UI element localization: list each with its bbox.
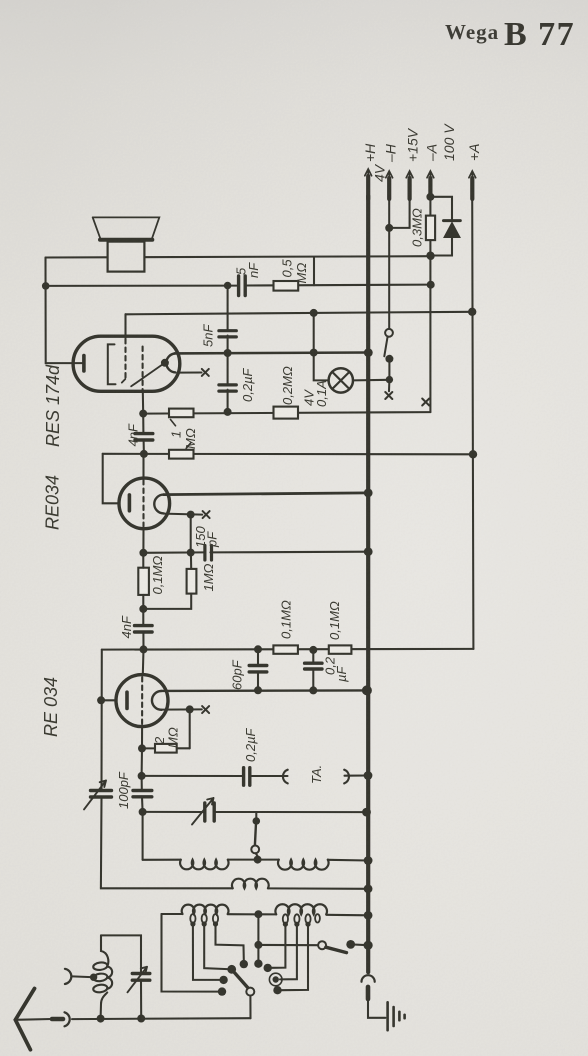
resistor 0,5MOhm xyxy=(274,281,299,291)
tube V2 RE034 envelope xyxy=(119,478,170,529)
switch S3 band left xyxy=(234,972,249,989)
tube V1 cathode xyxy=(82,356,86,371)
node W10 at 1M branch xyxy=(187,549,195,557)
antenna jack arc xyxy=(65,1012,70,1026)
terminal +A arrow xyxy=(470,178,474,199)
capacitor 0,2uF b xyxy=(305,663,322,669)
antenna coil loop frame xyxy=(101,935,142,1018)
node W22 at trimmer xyxy=(137,1015,145,1023)
node -A top xyxy=(426,193,434,201)
node coil at jack2 xyxy=(90,974,97,981)
wire W19 with coil xyxy=(101,887,368,889)
node contact A1 xyxy=(219,976,227,984)
antenna trimmer cap xyxy=(132,974,150,981)
terminal +H arrow xyxy=(366,176,370,199)
wire W6 xyxy=(143,412,430,414)
node W2 left xyxy=(42,282,50,290)
node W17 at bus xyxy=(362,808,371,817)
wire W1 top xyxy=(46,256,432,257)
tube V3 grid dashed xyxy=(141,677,143,724)
capacitor 0,2uF c xyxy=(244,768,250,786)
wire 60pF branch xyxy=(257,649,259,690)
wire tap B3 xyxy=(282,927,309,991)
terminal +15V arrow xyxy=(408,178,412,199)
tube V3 RE 034 envelope xyxy=(116,675,168,727)
wire 5nF grid cap line xyxy=(227,285,229,412)
wire diode branch xyxy=(430,197,452,256)
node 2M left xyxy=(138,744,146,752)
tube V2 cathode xyxy=(128,495,132,511)
wire 0,2uF branch xyxy=(312,650,314,691)
node W11 xyxy=(139,605,147,613)
node left contact d xyxy=(218,987,226,995)
wire +15V drop to -H xyxy=(389,196,409,228)
coil L1b xyxy=(278,860,329,870)
node cap line at W6 xyxy=(224,408,232,416)
coil L3a tapped xyxy=(182,905,229,914)
node contact B1 xyxy=(264,964,272,972)
tube V1 anode arc xyxy=(166,354,175,373)
wire W12 xyxy=(102,648,474,651)
bus bottom plug pin xyxy=(366,987,371,999)
wire 1M branch xyxy=(190,553,192,569)
trimmer arrow xyxy=(84,781,106,810)
tube V2 anode arc xyxy=(154,495,164,514)
ground symbol xyxy=(388,1002,405,1030)
node contact A3 xyxy=(240,960,248,968)
wire W11 U link xyxy=(143,553,191,609)
trimmer cap W17 xyxy=(205,803,214,821)
node W19 at bus xyxy=(364,884,373,893)
wire W5 to x mark xyxy=(179,371,202,373)
switch S1 mains xyxy=(385,329,393,337)
wire W13 anode V3 xyxy=(161,689,367,692)
capacitor 150pF xyxy=(205,546,212,561)
wire W7 cathode line xyxy=(103,453,473,456)
resistor 0,1MOhm a xyxy=(273,645,298,653)
wire W16 TA line xyxy=(142,774,368,777)
coil L1a xyxy=(180,860,228,870)
wire W10 xyxy=(143,552,368,553)
x mark V3 xyxy=(202,706,209,713)
coil L2 xyxy=(232,879,269,889)
tube V1 screen grid xyxy=(108,344,116,384)
antenna jack 2 lead xyxy=(72,975,91,978)
capacitor 5nF grid xyxy=(219,331,236,337)
switch S4 band right xyxy=(258,944,318,946)
node center at switch wire xyxy=(254,941,262,949)
tube V1 grid2 dashed xyxy=(142,347,144,392)
tube V1 RES174d envelope xyxy=(73,336,180,391)
node -H/+15V junction xyxy=(385,224,393,232)
wire W4 anode V1 xyxy=(175,351,369,354)
node contact B3 xyxy=(273,986,281,994)
tube V1 anode dot xyxy=(161,359,169,367)
resistor 0,2MOhm xyxy=(274,407,299,419)
wire -H line upper xyxy=(388,196,390,329)
node W13 at bus xyxy=(362,685,372,695)
wire grid drop to tube V1 xyxy=(124,314,126,338)
terminal -A arrow xyxy=(428,178,432,197)
node W8 at bus xyxy=(364,489,373,498)
wire tap B1 xyxy=(272,927,286,968)
x mark V2 xyxy=(203,511,210,518)
node contact B2 ringed xyxy=(273,976,279,982)
node W20 at bus xyxy=(364,911,373,920)
wire +H filament bus xyxy=(366,196,370,972)
lamp right lead xyxy=(353,379,389,382)
node W22 at coil xyxy=(97,1015,105,1023)
node center bottom xyxy=(254,960,262,968)
resistor 2MOhm xyxy=(142,747,190,749)
node W7 at 4nF xyxy=(140,450,148,458)
wire -A below resistor xyxy=(429,240,431,412)
resistor 0,1MOhm b xyxy=(329,645,352,653)
wire V3 grid to W16 xyxy=(141,748,143,776)
wire W14 drop xyxy=(189,709,191,748)
antenna xyxy=(15,989,34,1050)
x mark V1 xyxy=(202,369,209,376)
wire W8 anode V2 xyxy=(164,493,369,495)
antenna jack 2 arc xyxy=(65,969,71,984)
terminal -H arrow xyxy=(387,178,391,199)
node W14 xyxy=(186,705,194,713)
tube V3 cathode lead xyxy=(101,699,116,701)
node +A at cathode wire xyxy=(469,450,477,458)
wire center drop xyxy=(257,914,259,964)
node W10 at bus xyxy=(364,547,373,556)
capacitor padder on grid line xyxy=(141,776,143,789)
switch S2 coil short xyxy=(255,812,257,817)
tube V3 anode arc xyxy=(152,691,162,710)
node W16 left xyxy=(138,772,146,780)
node W6 left xyxy=(139,410,147,418)
capacitor 4nF a xyxy=(142,414,144,432)
resistor 1MOhm a xyxy=(169,409,194,418)
tube V1 anode diagonal xyxy=(131,363,165,387)
x mark -A corner xyxy=(422,399,429,406)
capacitor 5nF coupling xyxy=(239,276,246,296)
jack TA left xyxy=(283,770,288,784)
node W17 left xyxy=(139,808,147,816)
node W1 right at -A xyxy=(427,252,435,260)
resistor 0,1MOhm V2 xyxy=(138,568,149,595)
tube V1 control grid dashed xyxy=(124,339,126,379)
wire tap A3 xyxy=(216,927,244,961)
coil L3b tapped xyxy=(275,904,327,914)
wire V1 grid2 drop xyxy=(142,391,144,413)
coil L3b taps xyxy=(283,914,320,923)
capacitor 4nF b xyxy=(142,609,144,624)
wire W22 antenna line xyxy=(15,1018,250,1020)
speaker xyxy=(93,217,160,271)
wire W20 left drop xyxy=(162,914,219,992)
node V3 cathode xyxy=(97,696,105,704)
node W16 at bus xyxy=(364,771,373,780)
node W18 at bus xyxy=(364,856,373,865)
wire W20 with tapped coils xyxy=(162,914,369,915)
wire tap A1 xyxy=(193,927,220,980)
node W4 at bus xyxy=(364,348,373,357)
wire W7 left drop to V2 cathode xyxy=(103,454,119,504)
lamp 4V 0,1A xyxy=(314,313,329,381)
node W10 left xyxy=(139,549,147,557)
wire V3 line down to W18 xyxy=(142,812,144,860)
diode D1 xyxy=(444,219,461,222)
node W3 lamp branch xyxy=(310,309,318,317)
bus bottom jack arc xyxy=(362,975,375,982)
node W13 at 0,2uF xyxy=(309,686,317,694)
ground lead xyxy=(368,999,386,1018)
wire link W1-W2 xyxy=(313,257,315,285)
node W4 lamp branch xyxy=(310,349,318,357)
wire W9-W10 link xyxy=(190,515,192,553)
tube V2 grid dashed xyxy=(142,454,144,478)
node W12 at grid line xyxy=(140,645,148,653)
wire tap B2 xyxy=(280,927,297,980)
resistor 1MOhm vert xyxy=(187,569,197,594)
node -A bottom of resistor xyxy=(426,252,434,260)
coil L3a taps xyxy=(190,914,218,923)
jack TA right xyxy=(344,770,349,784)
wire tap A2 xyxy=(204,927,227,970)
wire W1 left drop to cathode xyxy=(46,258,83,364)
node W20 center xyxy=(254,910,262,918)
wire W14 grid V3 xyxy=(162,708,202,710)
capacitor 0,2uF anode xyxy=(219,385,236,391)
antenna plug pin xyxy=(52,1017,63,1022)
node +A at grid wire xyxy=(468,308,476,316)
node S4 at bus xyxy=(364,941,373,950)
title Wega B 77 xyxy=(445,16,575,53)
trimmer 100pF left line xyxy=(100,650,103,888)
resistor 0,3MOhm xyxy=(426,216,435,241)
node W2 at cap line xyxy=(224,282,232,290)
wire W2 grid return xyxy=(46,285,431,286)
node W12 at 60pF xyxy=(254,645,262,653)
capacitor 60pF xyxy=(249,666,267,672)
wire -A line upper xyxy=(429,194,431,216)
x mark -H end xyxy=(385,392,392,399)
wire W17 xyxy=(143,811,367,813)
wire W12 drop to V3 xyxy=(142,649,145,675)
resistor 1MOhm b xyxy=(169,450,194,459)
node W12 at 0,2uF xyxy=(309,646,317,654)
node W9 xyxy=(187,511,195,519)
wire +A line xyxy=(472,196,473,649)
node W13 at 60pF xyxy=(254,686,262,694)
node W2 right at -A xyxy=(427,281,435,289)
wire W3 grid top xyxy=(126,312,473,315)
tube V3 cathode xyxy=(125,692,129,708)
wire W18 with coils xyxy=(143,859,369,862)
node W4 at 5nF line xyxy=(224,349,232,357)
antenna coil L4 xyxy=(93,935,112,993)
wire W9 grid leak V2 xyxy=(164,514,202,515)
